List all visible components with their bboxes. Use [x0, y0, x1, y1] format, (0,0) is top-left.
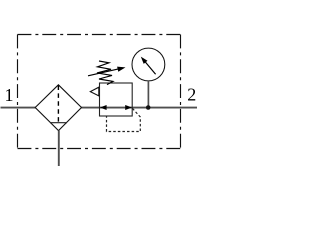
adjustment arrow shaft — [88, 69, 120, 76]
adjustment arrowhead — [117, 67, 125, 72]
svg-text:2: 2 — [187, 85, 196, 105]
filter sump chord — [50, 122, 67, 124]
gauge needle arrowhead — [141, 57, 148, 64]
enclosure boundary top edge (dash-dot assembly frame) — [18, 34, 181, 36]
filter element (dashed centre line) — [57, 86, 59, 123]
regulator spring — [97, 61, 113, 85]
regulator R1 (body) — [100, 83, 133, 116]
junction node (gauge tap) — [146, 105, 151, 110]
gauge needle shaft — [145, 61, 156, 74]
flow arrowhead left — [100, 105, 107, 110]
enclosure boundary left edge — [17, 35, 19, 149]
pilot line (dashed feedback) — [107, 109, 141, 132]
flow arrowhead right — [125, 105, 132, 110]
enclosure boundary right edge — [180, 35, 182, 149]
enclosure boundary bottom edge — [18, 148, 181, 150]
wire port 1 to filter inlet — [1, 107, 36, 109]
relief vent triangle — [90, 87, 99, 96]
gauge stem wire — [147, 81, 149, 108]
filter F1 (diamond body) — [35, 85, 81, 131]
svg-text:1: 1 — [5, 85, 14, 105]
drain wire below filter — [58, 131, 60, 166]
pressure gauge G1 (dial) — [132, 48, 165, 81]
wire filter outlet to port 2 — [81, 107, 197, 109]
